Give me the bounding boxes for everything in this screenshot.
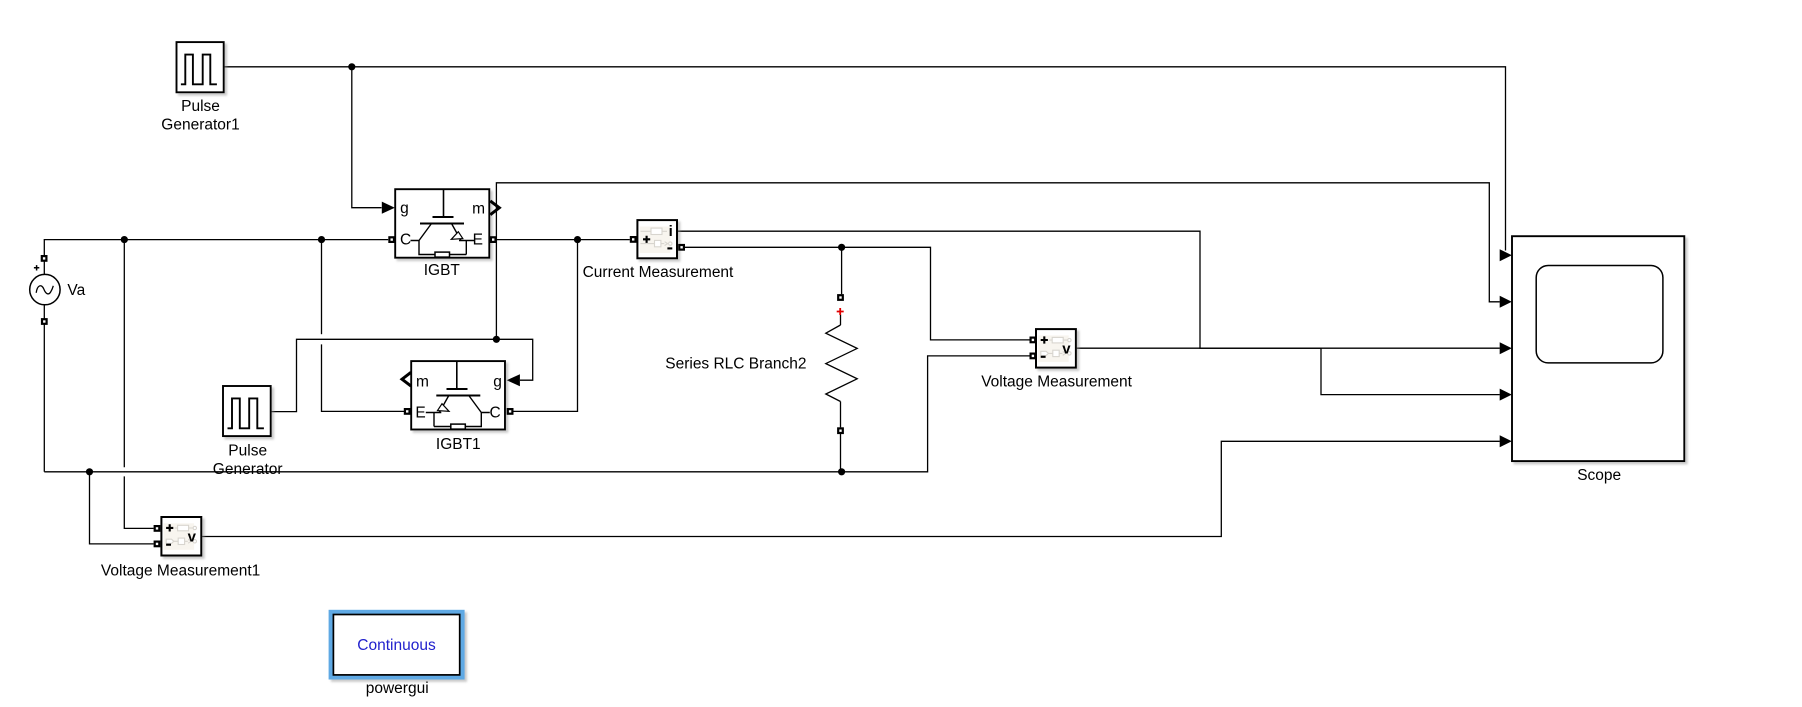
svg-text:IGBT1: IGBT1 [436,436,481,453]
wire source Va minus down to bottom rail [43,305,45,472]
junction J3 on top rail [318,236,325,243]
svg-text:E: E [415,404,425,421]
IGBT1 block U2 (mirrored) [411,361,505,429]
svg-text:g: g [493,373,502,390]
wire branch from node J1 down to IGBT gate g [352,67,382,208]
block Pulse Generator [223,386,271,436]
port square IGBT C [388,236,395,243]
wire branch node J2 down to Voltage Measurement1 plus (gap at rail crossing) [123,240,125,468]
wire junction J6 down to Series RLC Branch2 top port [841,247,843,294]
junction J7 on bottom rail [86,468,93,475]
port square Current Measurement plus [630,236,637,243]
svg-text:Generator: Generator [213,461,283,478]
svg-text:powergui: powergui [366,680,429,697]
wire continuation below crossing to IGBT1 E [322,344,405,411]
wire Voltage Measurement1 v output to Scope input 5 [201,441,1500,536]
port square Voltage Measurement1 plus [154,525,161,532]
port square Va plus [41,255,48,262]
arrowhead Scope input 2 [1500,296,1512,308]
svg-text:Pulse: Pulse [181,98,220,115]
junction J8 on bottom rail below RLC branch [838,468,845,475]
svg-text:Voltage Measurement: Voltage Measurement [981,374,1132,391]
block powergui [329,610,465,680]
wire IGBT E output to Current Measurement plus [497,239,630,241]
svg-text:C: C [400,232,411,249]
port square IGBT1 E [404,408,411,415]
AC voltage source Va [30,265,60,305]
svg-text:Continuous: Continuous [357,637,436,654]
Voltage Measurement1 block [161,517,201,556]
wire continuation below crossing to Voltage Measurement1 plus [124,476,153,528]
svg-text:g: g [400,200,409,217]
junction J1 on Pulse Generator1 wire [348,63,355,70]
port square Voltage Measurement minus [1030,353,1037,360]
arrowhead Scope input 5 [1500,435,1512,447]
resistor Series RLC Branch2 [826,308,857,427]
port square Voltage Measurement plus [1030,337,1037,344]
wire gate signal from node J5 up and right to Scope input 2 [496,183,1499,339]
Voltage Measurement block [1036,329,1076,368]
wire Pulse Generator1 output to Scope input 1 [224,67,1506,251]
port square Voltage Measurement1 minus [154,541,161,548]
arrowhead Scope input 4 [1500,389,1512,401]
wire Current Measurement i output to Scope input 3 [677,231,1500,348]
block Scope [1512,236,1684,461]
wire Current Measurement minus to Voltage Measurement plus [685,247,1030,340]
svg-text:i: i [669,223,673,240]
IGBT block U1 [395,189,489,258]
svg-text:C: C [489,404,500,421]
svg-text:IGBT: IGBT [424,262,461,279]
wire branch node J3 down to IGBT1 E (gap at gate-wire crossing) [321,240,323,335]
label Pulse Generator1 [161,98,239,133]
port square Series RLC Branch2 top [837,294,844,301]
wire branch node J7 down to Voltage Measurement1 minus [90,472,154,544]
arrowhead IGBT gate input g [382,202,395,214]
unconnected output port m of IGBT [490,201,499,215]
svg-text:m: m [472,200,485,217]
port square IGBT1 C [507,408,514,415]
junction J6 above Series RLC Branch2 [838,244,845,251]
arrowhead IGBT1 gate input g [507,374,520,386]
wire Pulse Generator output to IGBT1 gate g [271,339,533,411]
port square Current Measurement minus [678,244,685,251]
svg-text:Pulse: Pulse [228,442,267,459]
svg-text:v: v [188,528,197,545]
unconnected output port m of IGBT1 [402,372,411,386]
arrowhead Scope input 1 [1500,249,1512,261]
svg-text:v: v [1062,341,1071,358]
wire top rail from source Va to IGBT C [44,240,388,275]
svg-text:Scope: Scope [1577,467,1621,484]
svg-text:E: E [473,232,483,249]
svg-text:Va: Va [67,282,85,299]
junction J4 right of IGBT E [574,236,581,243]
port square IGBT E [490,236,497,243]
wire Series RLC Branch2 bottom port down to bottom rail [840,434,842,472]
svg-text:Voltage Measurement1: Voltage Measurement1 [101,563,260,580]
wire bottom rail to Voltage Measurement minus [44,356,1029,472]
svg-text:Generator1: Generator1 [161,117,239,134]
port square Va minus [41,318,48,325]
wire branch node J4 down and left to IGBT1 C [514,240,578,412]
label Pulse Generator [213,442,283,478]
junction J2 on top rail [121,236,128,243]
svg-text:Series RLC Branch2: Series RLC Branch2 [665,355,806,372]
block Pulse Generator1 [177,42,224,92]
Current Measurement block [637,220,677,258]
port square Series RLC Branch2 bottom [837,427,844,434]
arrowhead Scope input 3 [1500,342,1512,354]
wire Voltage Measurement v output to Scope input 4 [1076,348,1500,394]
svg-text:m: m [416,373,429,390]
svg-text:Current Measurement: Current Measurement [583,264,734,281]
junction J5 on gate wire [493,336,500,343]
